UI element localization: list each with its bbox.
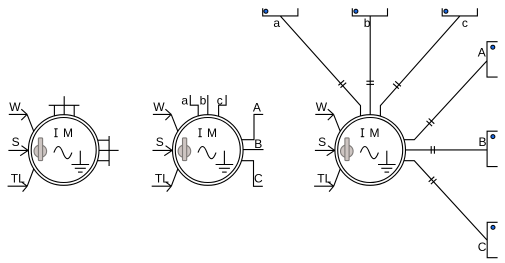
motor M3 AC sine symbol <box>360 147 378 159</box>
M1 top terminal block <box>49 96 80 117</box>
wire a (M2 top) <box>190 95 198 116</box>
arrow W leader <box>153 109 178 132</box>
terminal c bracket <box>442 8 477 16</box>
arrow W leader <box>9 109 34 132</box>
motor M3 shaft coupling symbol <box>341 138 354 161</box>
conductor marks on wire c <box>393 81 401 88</box>
svg-text:B: B <box>254 137 262 151</box>
motor M3 ground symbol <box>378 151 396 172</box>
terminal B connection point <box>491 135 495 139</box>
conductor marks on wire a <box>338 80 346 87</box>
conductor marks on wire C <box>429 177 437 184</box>
svg-text:W: W <box>9 100 21 114</box>
wire b (M3 to terminal b) <box>369 16 371 115</box>
svg-text:A: A <box>478 45 486 59</box>
motor M1 shaft coupling symbol <box>34 138 47 161</box>
svg-text:b: b <box>200 94 207 108</box>
terminal A bracket <box>487 42 498 77</box>
wire B (M3 to terminal B) <box>405 149 487 151</box>
terminal c connection point <box>444 9 448 13</box>
svg-text:C: C <box>478 240 487 254</box>
motor M3 label "I M" <box>361 126 381 140</box>
svg-text:S: S <box>12 135 20 149</box>
arrow S <box>153 146 173 156</box>
arrow S <box>8 146 28 156</box>
wire C (M3 to terminal C) <box>404 161 487 241</box>
motor M1 label "I M" <box>54 126 74 140</box>
svg-text:S: S <box>156 135 164 149</box>
arrow TL leader <box>314 169 340 192</box>
svg-text:W: W <box>153 100 165 114</box>
motor M2 label "I M" <box>198 126 218 140</box>
svg-text:a: a <box>181 94 188 108</box>
wire A (M3 to terminal A) <box>404 61 487 140</box>
svg-text:B: B <box>479 135 487 149</box>
conductor marks on wire A <box>427 119 435 127</box>
motor M1 AC sine symbol <box>54 147 72 159</box>
motor M2 AC sine symbol <box>198 147 216 159</box>
arrow W leader <box>315 109 340 132</box>
terminal C connection point <box>491 225 495 229</box>
svg-text:b: b <box>364 16 371 30</box>
motor M1 ground symbol <box>72 151 90 172</box>
wire C (M2 right) <box>242 161 263 187</box>
motor M2 ground symbol <box>216 151 234 172</box>
svg-text:C: C <box>254 172 263 186</box>
M1 right terminal block <box>98 136 119 166</box>
wire c (M2 top) <box>219 95 227 117</box>
conductor marks on wire B <box>431 146 434 154</box>
arrow S <box>315 146 335 156</box>
terminal B bracket <box>487 131 498 166</box>
arrow TL leader <box>152 169 178 192</box>
svg-text:W: W <box>316 100 328 114</box>
motor M1 frame (double circle) <box>28 115 99 186</box>
wire c (M3 to terminal c) <box>380 16 460 116</box>
terminal A connection point <box>491 45 495 49</box>
motor M3 frame (double circle) <box>335 115 406 186</box>
svg-text:c: c <box>217 94 223 108</box>
terminal b connection point <box>354 9 358 13</box>
terminal C bracket <box>487 222 497 257</box>
motor M2 frame (double circle) <box>173 115 244 186</box>
svg-text:a: a <box>273 16 280 30</box>
svg-text:A: A <box>253 101 261 115</box>
svg-text:S: S <box>318 135 326 149</box>
terminal a connection point <box>264 9 268 13</box>
wire B (M2 right) <box>243 149 264 151</box>
terminal a bracket <box>263 8 298 16</box>
terminal b bracket <box>352 8 387 16</box>
svg-text:c: c <box>462 16 468 30</box>
motor M2 shaft coupling symbol <box>178 138 191 161</box>
arrow TL leader <box>8 169 34 192</box>
wire b (M2 top) <box>207 95 209 115</box>
wire a (M3 to terminal a) <box>280 16 360 116</box>
conductor marks on wire b <box>366 81 374 84</box>
wire A (M2 right) <box>242 114 264 139</box>
